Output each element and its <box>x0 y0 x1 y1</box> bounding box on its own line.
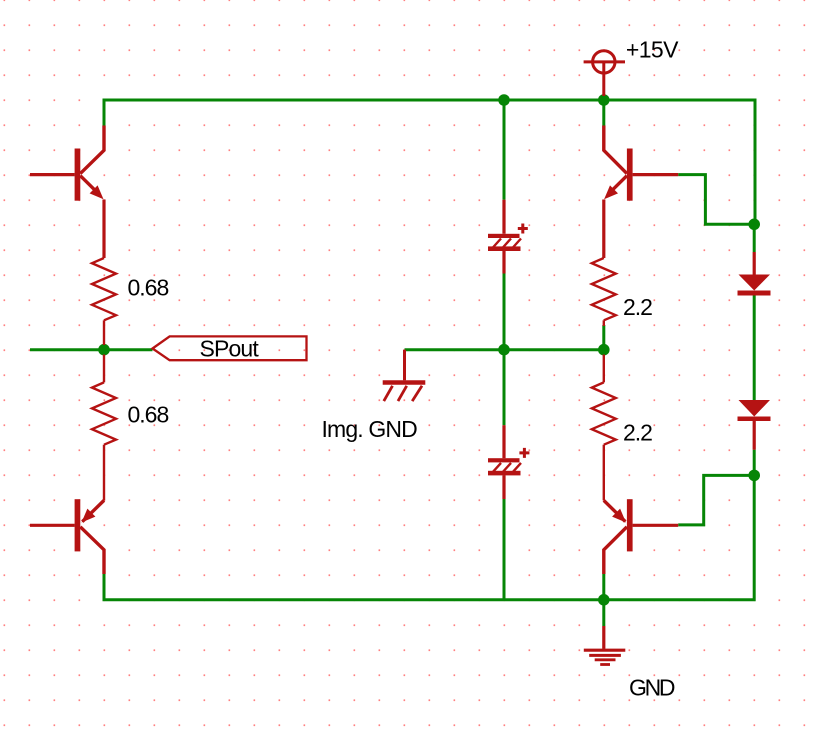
transistor Q3 (PNP, bottom left) <box>30 499 104 574</box>
wire cap column top segment <box>503 100 506 200</box>
wire +15V top rail <box>104 100 755 224</box>
junction SPout node <box>98 344 110 356</box>
svg-text:2.2: 2.2 <box>623 294 652 320</box>
wire between diodes D1-D2 <box>753 296 756 401</box>
transistor Q2 (NPN, top right, mirrored) <box>604 126 678 259</box>
wire R3 to middle junction <box>602 325 605 350</box>
resistor R4 2.2 (lower right) <box>592 355 616 501</box>
svg-text:0.68: 0.68 <box>128 401 169 427</box>
wire cap column bottom segment <box>503 499 506 600</box>
power symbol +15V <box>584 51 625 96</box>
global label SPout <box>153 336 307 362</box>
chassis ground Img. GND <box>383 350 426 401</box>
wire right rail down, bottom rail, left column up <box>104 475 754 599</box>
wire cap column middle segment <box>503 274 506 426</box>
svg-text:0.68: 0.68 <box>128 274 169 300</box>
wire SPout net <box>30 348 153 351</box>
resistor R3 2.2 (upper right) <box>592 258 616 326</box>
junction at right column / top rail <box>598 94 610 106</box>
junction D2 / Q4 base jog <box>748 470 760 482</box>
wire D2 cathode to junction <box>753 450 756 476</box>
ground symbol GND <box>584 626 626 665</box>
capacitor C2 (lower, polarized) <box>488 425 529 499</box>
capacitor C1 (upper, polarized) <box>488 200 528 274</box>
svg-text:2.2: 2.2 <box>623 419 652 445</box>
svg-text:Img. GND: Img. GND <box>322 416 418 442</box>
junction Q2 base / diode chain <box>748 219 760 231</box>
svg-text:SPout: SPout <box>200 336 260 362</box>
wire GND stub <box>602 600 605 626</box>
resistor R1 0.68 (upper left) <box>92 258 116 345</box>
transistor Q4 (PNP, bottom right, mirrored) <box>604 499 678 574</box>
wire middle rail (Img GND to right column) <box>405 348 604 351</box>
junction at cap column / top rail <box>498 94 510 106</box>
wire D1 anode stub <box>753 224 756 252</box>
diode D2 (lower right) <box>738 400 771 450</box>
svg-text:GND: GND <box>629 674 675 700</box>
wire right column top stub <box>602 100 605 126</box>
transistor Q1 (NPN, top left) <box>30 126 104 259</box>
wire Q4 collector to bottom rail <box>602 574 605 600</box>
junction cap column / middle rail <box>498 344 510 356</box>
junction right column / middle rail <box>598 344 610 356</box>
diode D1 (upper right) <box>738 252 771 296</box>
svg-text:+15V: +15V <box>626 37 679 63</box>
wire Q4 base jog <box>678 475 754 525</box>
junction GND / bottom rail <box>598 594 610 606</box>
wire Q2 base jog <box>678 175 754 225</box>
resistor R2 0.68 (lower left) <box>92 355 116 501</box>
